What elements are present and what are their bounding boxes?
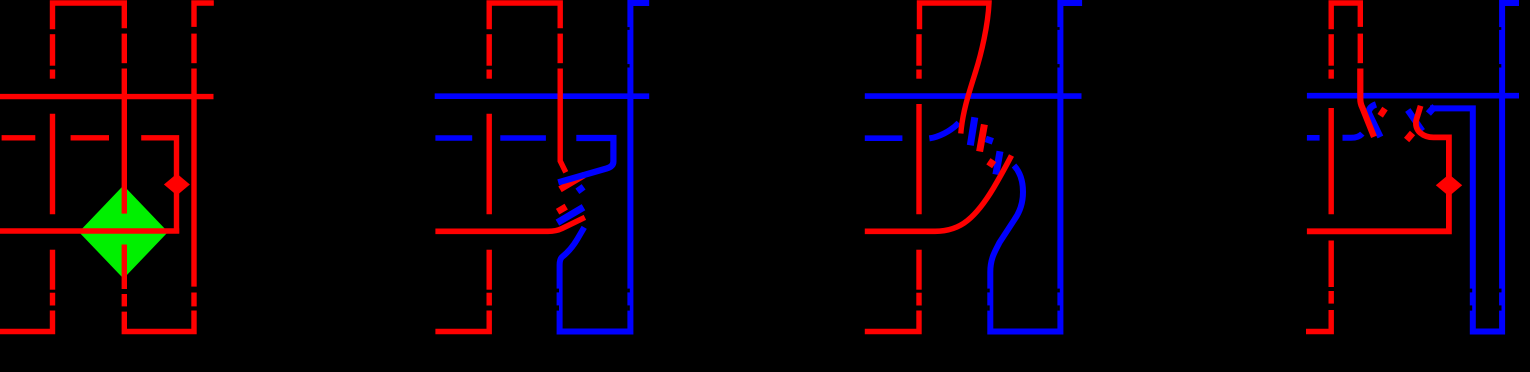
left seam long middle dash bbox=[1328, 108, 1333, 214]
bottom cap connecting strand and right line bbox=[124, 311, 194, 332]
green diamond vertex bbox=[79, 185, 168, 278]
red diamond mark bbox=[1436, 174, 1462, 196]
left seam long middle dash bbox=[916, 104, 921, 214]
main horizontal line bbox=[0, 94, 214, 99]
red arc from twist to mid horizontal bbox=[865, 156, 1012, 232]
red cut band upper crossing bbox=[560, 175, 584, 189]
blue dashed line dash 1 bbox=[1307, 135, 1320, 141]
red strand upper dash bbox=[1358, 34, 1363, 64]
strand vertical main solid segment bbox=[122, 69, 127, 214]
red twist short piece bbox=[989, 160, 993, 166]
top narrow bridge bbox=[1331, 3, 1360, 29]
dashed horizontal dash 3 with corner down bbox=[141, 138, 176, 234]
blue band twist 2 bbox=[1408, 110, 1423, 131]
left seam lower dot bbox=[916, 293, 921, 306]
left seam bottom corner bbox=[435, 311, 489, 332]
strand dash below diamond bbox=[122, 245, 127, 290]
right line top corner with stub bbox=[194, 3, 214, 27]
blue twist band upper bbox=[970, 117, 975, 145]
blue main horizontal bbox=[435, 93, 650, 99]
red strand solid bending into twist 1 bbox=[1360, 69, 1374, 137]
red twist band bbox=[980, 125, 985, 152]
left seam dot bbox=[487, 70, 492, 79]
blue cut stub upper crossing bbox=[577, 187, 583, 192]
blue strand from twist 2 corner down to bottom cap and right line with stub bbox=[1430, 3, 1519, 332]
left seam upper dash bbox=[50, 34, 55, 65]
red band twist 2 bending right corner down and mid horizontal bbox=[1307, 106, 1449, 232]
left seam bottom corner bbox=[865, 311, 919, 332]
red strand solid with bend cut end bbox=[560, 69, 566, 173]
red strand upper dash bbox=[558, 34, 563, 64]
right line lower dot bbox=[191, 293, 196, 307]
red tick twist 1 bbox=[1380, 109, 1385, 116]
dash-dot notches on blue legs bbox=[556, 289, 1501, 311]
left seam lower dot bbox=[50, 293, 55, 306]
right line main solid segment bbox=[191, 69, 196, 287]
red mid horizontal bending up cut end bbox=[435, 217, 585, 231]
blue strand S-curve to bottom cap and right line with stub bbox=[990, 3, 1082, 332]
dashed horizontal dash 2 bbox=[71, 135, 109, 140]
left seam lower dot bbox=[487, 293, 492, 306]
left seam lower dot bbox=[1328, 291, 1333, 304]
red diamond mark bbox=[164, 174, 190, 196]
blue dashed curved dash rising into twist bbox=[929, 123, 959, 139]
left seam dot bbox=[50, 70, 55, 79]
left seam lower dash bbox=[1328, 241, 1333, 288]
left seam upper dash bbox=[916, 34, 921, 65]
left seam dot bbox=[916, 70, 921, 79]
blue dashed dash 3 with corner and diagonal cut end bbox=[558, 138, 613, 182]
red cut tick lower crossing bbox=[558, 207, 567, 212]
top bridge cup bbox=[489, 3, 560, 29]
blue twist dot bbox=[988, 137, 990, 143]
strand dot below diamond bbox=[122, 294, 127, 306]
strand vertical upper dash bbox=[122, 34, 127, 64]
blue dashed line dash 1 bbox=[865, 135, 903, 141]
mid horizontal line through green diamond bbox=[0, 228, 179, 233]
top bridge cup bbox=[53, 3, 125, 29]
left seam dot bbox=[1328, 70, 1333, 79]
left seam lower dash bbox=[50, 250, 55, 290]
blue strand from cut down to bottom cap and right line with stub bbox=[560, 3, 650, 332]
top bridge with curved strand leg bbox=[920, 3, 990, 134]
blue dashed dash 2 rising into twist 1 bbox=[1343, 134, 1363, 138]
blue hook and parallel band twist 1 bbox=[1369, 104, 1381, 137]
blue dashed line dash 1 bbox=[435, 135, 472, 141]
dashed horizontal dash 1 bbox=[2, 135, 36, 140]
left seam bottom corner to edge bbox=[0, 311, 53, 332]
left seam long middle dash bbox=[50, 114, 55, 215]
right line upper dash bbox=[191, 34, 196, 64]
blue twist band lower bbox=[996, 151, 1000, 174]
left seam long middle dash bbox=[487, 114, 492, 215]
blue tick twist 2 bbox=[1428, 106, 1434, 113]
blue cut band lower crossing bbox=[557, 207, 583, 222]
red tick twist 2 lower left bbox=[1407, 133, 1413, 140]
left seam lower dash bbox=[487, 250, 492, 290]
blue dashed line dash 2 bbox=[500, 135, 546, 141]
left seam upper dash bbox=[1328, 34, 1333, 65]
left seam lower dash bbox=[916, 250, 921, 290]
left seam bottom corner bbox=[1306, 310, 1331, 332]
left seam upper dash bbox=[487, 34, 492, 65]
blue main horizontal bbox=[1307, 93, 1519, 99]
blue main horizontal bbox=[865, 93, 1082, 99]
